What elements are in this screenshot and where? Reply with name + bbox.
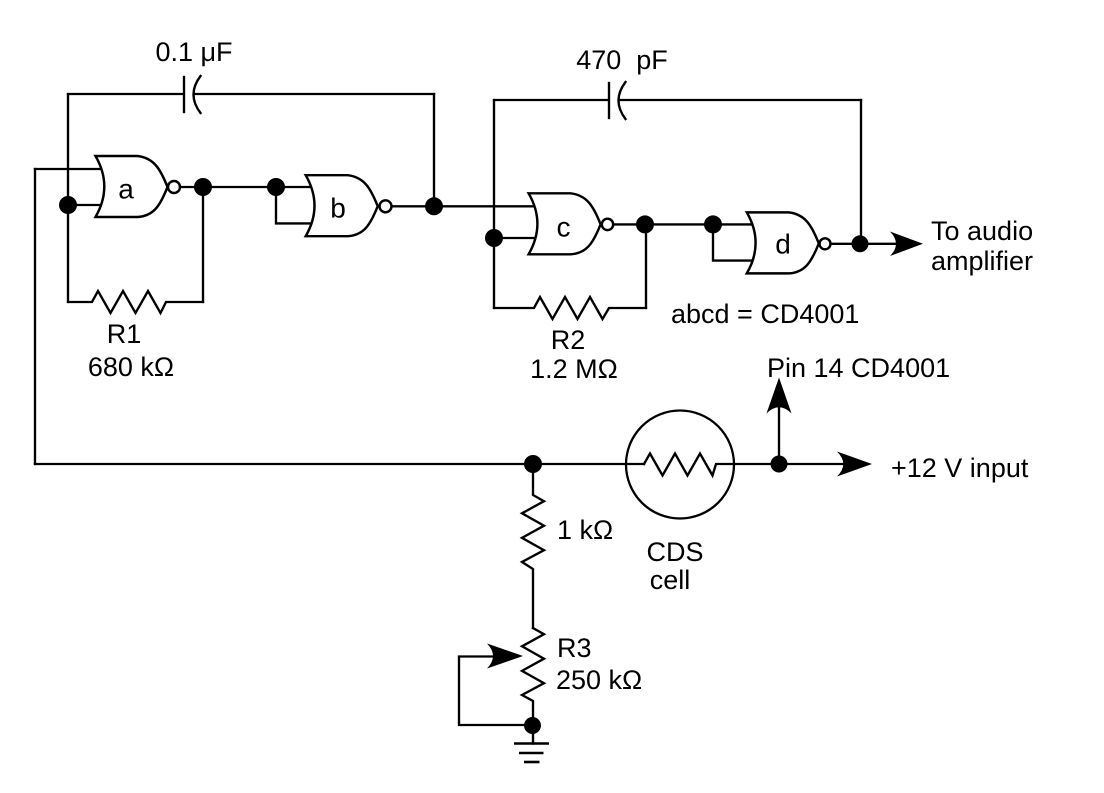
svg-text:cell: cell bbox=[650, 565, 691, 595]
svg-text:R2: R2 bbox=[551, 325, 586, 355]
NOR gate d bubble bbox=[820, 238, 831, 249]
node pin14 junction bbox=[771, 456, 788, 473]
svg-text:a: a bbox=[118, 174, 134, 205]
wire 470pF top left segment bbox=[494, 99, 607, 101]
NOR gate d bbox=[747, 212, 819, 273]
arrow R3 wiper bbox=[487, 644, 523, 669]
wire gate a upper input bbox=[35, 168, 106, 170]
wire gate d lower input stub bbox=[713, 224, 755, 260]
svg-text:CDS: CDS bbox=[646, 537, 703, 567]
node gate a lower input bbox=[59, 196, 77, 214]
node gate d input bbox=[704, 215, 722, 233]
wire vertical from node to R1 right bbox=[202, 187, 204, 302]
wire gate a output to gate b bbox=[180, 186, 314, 188]
node ground junction bbox=[524, 717, 541, 734]
node 1k top junction bbox=[524, 455, 542, 473]
capacitor C1 0.1uF flat plate bbox=[183, 77, 185, 112]
svg-text:abcd = CD4001: abcd = CD4001 bbox=[671, 299, 859, 329]
wire 0.1uF top right segment bbox=[194, 93, 434, 95]
wire gate c output to gate d bbox=[613, 223, 755, 225]
node gate a output bbox=[194, 178, 212, 196]
wire pin14 vertical bbox=[778, 404, 780, 464]
svg-text:b: b bbox=[330, 193, 346, 224]
NOR gate b bbox=[306, 175, 378, 236]
ground bar 1 bbox=[514, 742, 549, 745]
svg-text:R1: R1 bbox=[107, 319, 142, 349]
NOR gate a bbox=[96, 156, 168, 217]
gate letters bbox=[118, 174, 791, 260]
wire R3 wiper leg bbox=[459, 657, 533, 726]
node gate b output / C1 bbox=[425, 197, 443, 215]
arrow to audio amplifier bbox=[890, 232, 923, 257]
arrowheads bbox=[487, 232, 923, 669]
arrow pin 14 up bbox=[767, 378, 792, 414]
resistor CDS zigzag bbox=[644, 454, 845, 476]
wire far-left vertical rail bbox=[34, 169, 36, 464]
svg-text:amplifier: amplifier bbox=[931, 246, 1033, 276]
wire R2 right vertical bbox=[645, 224, 647, 308]
svg-text:Pin 14 CD4001: Pin 14 CD4001 bbox=[767, 353, 950, 383]
ground bar 2 bbox=[519, 752, 544, 755]
resistor R1 zigzag bbox=[68, 291, 203, 313]
svg-text:1 kΩ: 1 kΩ bbox=[557, 515, 613, 545]
capacitor C2 470pF curved plate bbox=[619, 82, 626, 119]
wire gate a lower input bbox=[68, 204, 106, 206]
svg-text:1.2 MΩ: 1.2 MΩ bbox=[530, 354, 618, 384]
resistor R2 zigzag bbox=[494, 297, 646, 319]
resistor R3 zigzag vertical bbox=[522, 628, 544, 725]
wire 0.1uF top left segment bbox=[68, 93, 182, 95]
NOR gate c bubble bbox=[602, 219, 613, 230]
wire gate b output to gate c bbox=[391, 205, 537, 207]
gates bbox=[96, 156, 831, 273]
svg-text:To audio: To audio bbox=[931, 216, 1033, 246]
node gate c output bbox=[636, 215, 654, 233]
wire bottom +12V rail bbox=[35, 463, 644, 465]
ground bar 3 bbox=[524, 761, 540, 764]
NOR gate a bubble bbox=[168, 181, 180, 193]
resistor 1k zigzag vertical bbox=[522, 464, 544, 628]
NOR gate b bubble bbox=[380, 200, 392, 212]
NOR gate c bbox=[529, 193, 601, 254]
node gate c lower input bbox=[485, 229, 503, 247]
CDS cell circle bbox=[626, 411, 734, 519]
svg-text:470 pF: 470 pF bbox=[576, 45, 668, 75]
svg-text:d: d bbox=[775, 229, 791, 260]
svg-text:0.1 μF: 0.1 μF bbox=[155, 37, 232, 67]
svg-text:680 kΩ: 680 kΩ bbox=[88, 352, 174, 382]
wire 470pF left vertical down to R2 bbox=[493, 100, 495, 308]
wire gate d output bbox=[830, 243, 898, 245]
svg-text:250 kΩ: 250 kΩ bbox=[556, 665, 642, 695]
arrow +12V input bbox=[837, 452, 872, 477]
wire vertical C1 right leg bbox=[433, 94, 435, 206]
wire left vertical of C1 loop down to R1 bbox=[67, 94, 69, 302]
svg-text:+12 V input: +12 V input bbox=[891, 453, 1029, 483]
svg-text:R3: R3 bbox=[557, 633, 592, 663]
node gate b input bbox=[267, 178, 285, 196]
wire 470pF top right segment bbox=[619, 99, 861, 101]
wire ground stem bbox=[532, 725, 534, 744]
wire gate c lower input bbox=[494, 237, 537, 239]
svg-text:c: c bbox=[557, 212, 571, 243]
wire 470pF right vertical bbox=[860, 100, 862, 244]
capacitor C2 470pF flat plate bbox=[608, 83, 610, 118]
node gate d output bbox=[852, 235, 869, 252]
capacitor C1 0.1uF curved plate bbox=[194, 76, 201, 113]
wire gate b lower input stub bbox=[276, 187, 314, 223]
